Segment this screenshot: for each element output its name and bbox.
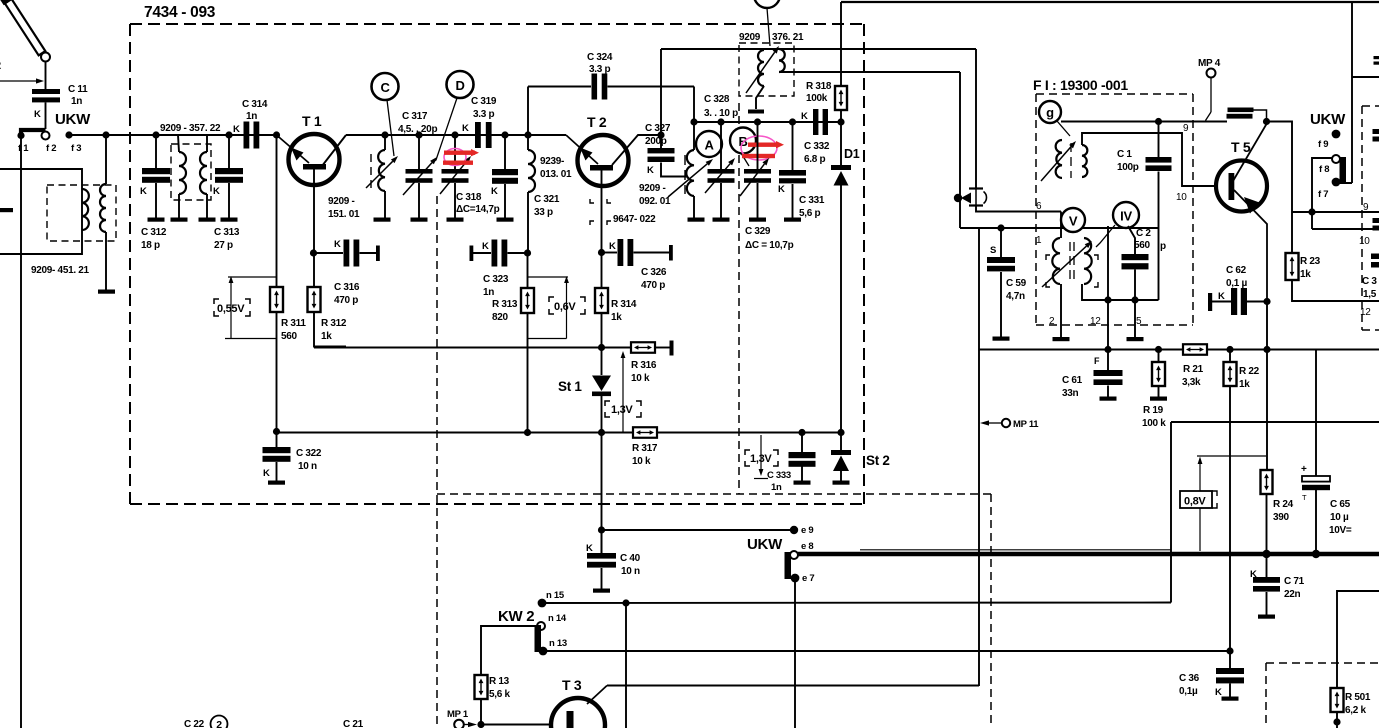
junction x1312 y212 — [1308, 208, 1315, 215]
T3 collector wire — [587, 686, 607, 705]
supply bus thick — [798, 552, 1379, 557]
resistor R13 — [475, 675, 488, 699]
junction x627 — [622, 599, 629, 606]
bypass capacitor K — [504, 135, 506, 169]
ground pin2 — [1053, 337, 1070, 341]
svg-text:T: T — [1302, 493, 1307, 502]
capacitor C322 — [276, 432, 278, 448]
svg-text:C 313: C 313 — [214, 227, 240, 238]
arrow pointing to antenna wire — [0, 80, 39, 82]
wire g to pin9 line — [1061, 121, 1227, 123]
T5 base bar — [1229, 173, 1235, 200]
junction C327 — [657, 131, 664, 138]
red annotation marks near C318 — [444, 149, 466, 166]
trafo primary winding — [758, 50, 764, 86]
trimmer capacitor C318 — [454, 135, 456, 169]
bracket 9647-022 — [590, 199, 594, 203]
pointer line from B — [741, 153, 749, 166]
svg-text:R 313: R 313 — [492, 299, 518, 310]
wire main UKW line — [69, 134, 277, 136]
terminal f9 — [1332, 130, 1341, 139]
svg-text:K: K — [801, 111, 808, 122]
svg-text:C 21: C 21 — [343, 719, 364, 728]
svg-text:33n: 33n — [1062, 388, 1079, 399]
coupling arrow — [954, 194, 962, 202]
terminal e9 — [790, 526, 798, 534]
capacitor C314 — [244, 122, 250, 149]
svg-text:3.3 p: 3.3 p — [473, 109, 494, 120]
resistor R22 — [1229, 350, 1231, 363]
svg-text:C 22: C 22 — [184, 719, 205, 728]
resistor R311 branch — [276, 135, 278, 287]
junction C331 — [789, 118, 796, 125]
svg-text:K: K — [213, 186, 220, 197]
capacitor C313 — [228, 135, 230, 168]
svg-text:f 8: f 8 — [1319, 164, 1329, 175]
svg-text:10V=: 10V= — [1329, 525, 1352, 536]
wire C324 to oscillator riser — [608, 86, 695, 88]
svg-text:R 22: R 22 — [1239, 366, 1260, 377]
svg-text:MP 4: MP 4 — [1198, 58, 1221, 69]
svg-text:R 316: R 316 — [631, 360, 657, 371]
capacitor C327 — [660, 135, 662, 148]
trafo secondary winding — [779, 49, 785, 72]
measure 0.8V arrow line — [1199, 460, 1201, 551]
svg-text:151. 01: 151. 01 — [328, 209, 360, 220]
ground C61 — [1100, 397, 1117, 401]
svg-text:ΔC=14,7p: ΔC=14,7p — [456, 204, 500, 215]
oscillator inductor 9209-092.01 — [693, 122, 695, 150]
wire pin6 into transformer — [1060, 212, 1062, 239]
svg-text:C 312: C 312 — [141, 227, 167, 238]
wire rail y350 — [979, 349, 1183, 351]
transistor T1 — [289, 134, 340, 185]
svg-text:C 328: C 328 — [704, 94, 730, 105]
svg-text:1k: 1k — [1300, 269, 1311, 280]
wire top feed line y49 — [661, 48, 976, 50]
svg-text:1n: 1n — [483, 287, 494, 298]
svg-text:f 1: f 1 — [18, 143, 29, 154]
junction C317 — [415, 131, 422, 138]
svg-text:0,8V: 0,8V — [1184, 496, 1206, 508]
svg-text:K: K — [1250, 569, 1257, 580]
svg-text:R 318: R 318 — [806, 81, 832, 92]
pointer line from D — [432, 98, 457, 163]
wire main line into T2 — [560, 134, 566, 136]
svg-text:R 311: R 311 — [281, 318, 306, 329]
svg-text:f 2: f 2 — [46, 143, 56, 154]
capacitor C36 — [1229, 651, 1231, 668]
svg-text:n 14: n 14 — [548, 613, 567, 624]
svg-text:1k: 1k — [321, 331, 332, 342]
wire long rail x979 — [978, 228, 980, 686]
svg-text:22n: 22n — [1284, 589, 1301, 600]
antenna transformer 9209-451.21 box — [0, 169, 82, 254]
svg-text:n 13: n 13 — [549, 638, 567, 649]
junction bus C65 — [1312, 550, 1320, 558]
inner dashed bottom y=494 — [437, 493, 991, 495]
svg-text:6: 6 — [1036, 201, 1042, 212]
diode St1 — [601, 348, 603, 376]
svg-text:9209- 451. 21: 9209- 451. 21 — [31, 265, 90, 276]
svg-text:St 2: St 2 — [866, 453, 890, 468]
transistor T2 — [578, 135, 629, 186]
svg-text:10 k: 10 k — [632, 456, 651, 467]
wire corner down to oscillator coil — [693, 87, 695, 123]
wire winding to T5 base jog — [1082, 133, 1217, 186]
junction osc coil — [690, 118, 697, 125]
coil 357 right — [206, 135, 208, 152]
filter box FI:19300-001 dashed border — [1036, 93, 1193, 95]
ground — [98, 290, 115, 294]
wire R501 branch — [1337, 591, 1379, 688]
svg-text:ΔC = 10,7p: ΔC = 10,7p — [745, 240, 794, 251]
svg-text:K: K — [140, 186, 147, 197]
junction tuned coil node — [381, 131, 388, 138]
wire corner to FI pin1 — [960, 227, 1159, 229]
svg-text:g: g — [1046, 105, 1054, 120]
resistor R21 horizontal — [1183, 344, 1207, 355]
svg-text:3,3k: 3,3k — [1182, 377, 1201, 388]
svg-text:F I : 19300 -001: F I : 19300 -001 — [1033, 77, 1128, 93]
T2 base lead — [601, 171, 603, 289]
junction R501 bottom — [1333, 718, 1340, 725]
wire C11 to switch f2 — [45, 103, 47, 130]
capacitor C319 — [475, 122, 481, 148]
T1 base bar — [303, 164, 326, 170]
svg-text:100 k: 100 k — [1142, 418, 1166, 429]
svg-text:e 9: e 9 — [801, 525, 813, 536]
svg-text:3. . 10 p: 3. . 10 p — [704, 108, 738, 119]
svg-text:C 40: C 40 — [620, 553, 641, 564]
wire T3 collector line y686 — [607, 685, 979, 687]
svg-text:K: K — [647, 165, 654, 176]
switch bar e8-e7 — [785, 552, 792, 579]
inner dashed partition x=739 — [738, 103, 740, 494]
measure box 1.3V St2 — [745, 450, 750, 455]
measure 0.55V ticks and arrow — [228, 276, 277, 278]
junction trimmer B — [754, 118, 761, 125]
svg-text:1n: 1n — [246, 111, 257, 122]
resistor R318 — [840, 2, 842, 86]
T1 collector wire — [322, 135, 346, 166]
svg-text:9209: 9209 — [739, 32, 761, 43]
svg-text:K: K — [586, 543, 593, 554]
svg-text:390: 390 — [1273, 512, 1290, 523]
svg-text:p: p — [1160, 241, 1166, 252]
svg-text:R 314: R 314 — [611, 299, 637, 310]
svg-text:12: 12 — [1090, 316, 1101, 327]
svg-text:C 333: C 333 — [767, 470, 791, 481]
junction T5 emitter rail — [1263, 346, 1270, 353]
svg-text:T 5: T 5 — [1231, 139, 1251, 155]
dashed border x=991 of lower-right module — [990, 494, 992, 728]
wire x1352 down to f7 — [1351, 2, 1353, 183]
junction R19 — [1155, 346, 1162, 353]
svg-text:K: K — [334, 239, 341, 250]
junction bypass cap — [501, 131, 508, 138]
variable inductor 9209-151.01 — [384, 135, 386, 150]
partial capacitor right edge lower — [1371, 254, 1379, 260]
svg-text:33 p: 33 p — [534, 207, 553, 218]
resistor R314 — [595, 288, 608, 313]
svg-text:D: D — [455, 78, 464, 93]
svg-text:C: C — [380, 80, 390, 95]
capacitor C2 — [1128, 226, 1135, 254]
junction C59 — [997, 224, 1004, 231]
measure 0.8V tick — [1197, 455, 1266, 457]
junction St1 top — [598, 344, 605, 351]
capacitor C332 — [813, 109, 818, 135]
svg-text:R 13: R 13 — [489, 676, 510, 687]
wire antenna to C11 — [45, 62, 47, 90]
wire n15 line y603 — [542, 602, 1171, 605]
terminal f3 — [65, 131, 72, 138]
svg-text:376. 21: 376. 21 — [772, 32, 804, 43]
svg-text:UKW: UKW — [55, 111, 91, 128]
wire e9 line — [602, 529, 795, 531]
trimmer capacitor A — [720, 122, 722, 169]
ground C40 — [593, 589, 610, 593]
filter transformer bottom core dashes — [1069, 242, 1071, 251]
T1 emitter with arrow — [277, 135, 310, 163]
capacitor C312 — [155, 135, 157, 168]
terminal e8 — [790, 551, 798, 559]
wire main line T1 to C317 region — [346, 134, 566, 136]
svg-text:A: A — [704, 138, 714, 153]
pointer line from IV — [1096, 225, 1115, 247]
diode D1 — [840, 122, 842, 165]
svg-text:1,3V: 1,3V — [611, 404, 633, 416]
ground R19 — [1150, 397, 1167, 401]
T1 base lead down — [313, 170, 315, 288]
wire f1 down left rail — [20, 136, 22, 728]
antenna rod — [0, 0, 47, 56]
svg-text:10: 10 — [1176, 192, 1187, 203]
svg-text:R 24: R 24 — [1273, 499, 1294, 510]
capacitor C333 — [801, 433, 803, 453]
dial pointer circle A — [696, 131, 722, 157]
measure box 0.8V — [1180, 491, 1212, 508]
junction C318 — [451, 131, 458, 138]
ground trimmer B — [749, 218, 766, 222]
svg-text:100p: 100p — [1117, 162, 1139, 173]
wire riser to C324 line — [527, 87, 529, 136]
svg-text:K: K — [263, 468, 270, 479]
svg-text:K: K — [778, 184, 785, 195]
wire rail y432 — [277, 432, 634, 434]
svg-text:1,3V: 1,3V — [750, 453, 772, 465]
wire f8 to left corner down — [1312, 158, 1332, 229]
svg-text:2: 2 — [216, 719, 222, 728]
svg-text:5,6 p: 5,6 p — [799, 208, 820, 219]
resistor R312 — [308, 287, 321, 312]
svg-text:5: 5 — [1136, 316, 1142, 327]
svg-text:e 7: e 7 — [802, 573, 814, 584]
svg-text:UKW: UKW — [1310, 111, 1346, 128]
right module dashed border — [1362, 105, 1379, 107]
terminal f2 — [42, 132, 50, 140]
pointer line from C — [387, 100, 394, 156]
svg-text:10 n: 10 n — [621, 566, 640, 577]
svg-text:D1: D1 — [844, 147, 860, 161]
T5 emitter with arrow — [1234, 190, 1267, 302]
svg-text:9: 9 — [1363, 202, 1369, 213]
T5 collector wire — [1233, 124, 1267, 181]
wire circle to trafo — [767, 8, 770, 46]
junction bus R24 — [1262, 550, 1270, 558]
ground C312 — [148, 218, 165, 222]
pointer line from g — [1057, 121, 1070, 136]
junction C62 emitter node — [1263, 298, 1270, 305]
terminal f1 — [17, 132, 24, 139]
ground C59 — [993, 337, 1010, 341]
svg-text:C 326: C 326 — [641, 267, 667, 278]
svg-text:0,1µ: 0,1µ — [1179, 686, 1198, 697]
capacitor C324 — [592, 74, 598, 100]
module box 7434-093 dashed border — [130, 23, 864, 25]
resistor R19 — [1158, 350, 1160, 363]
svg-text:27 p: 27 p — [214, 240, 233, 251]
resistor R501 — [1331, 688, 1344, 712]
terminal n13 — [539, 647, 548, 656]
svg-text:R 312: R 312 — [321, 318, 347, 329]
bandfilter 9209-357.22 dashed box — [171, 144, 211, 200]
junction C313 — [225, 131, 232, 138]
wire y72 corner down x960 — [959, 72, 961, 228]
filter transformer top arrow — [1041, 147, 1071, 181]
junction C2 bottom — [1131, 296, 1138, 303]
svg-text:C 1: C 1 — [1117, 149, 1132, 160]
red annotation marks near B — [741, 136, 777, 160]
junction R13 bottom — [477, 721, 484, 728]
svg-text:K: K — [34, 109, 41, 120]
junction C1 top — [1155, 118, 1162, 125]
svg-text:4,5. . 20p: 4,5. . 20p — [398, 124, 437, 135]
wire C324 top line — [528, 86, 591, 88]
svg-text:R 317: R 317 — [632, 443, 658, 454]
svg-text:V: V — [1069, 214, 1078, 229]
wire e7 down — [794, 578, 796, 728]
antenna terminal circle — [41, 53, 50, 62]
inner dashed partition x=437 — [436, 196, 438, 728]
ground C318 — [447, 218, 464, 222]
svg-text:9647- 022: 9647- 022 — [613, 214, 656, 225]
wire oscillator top line — [694, 121, 841, 123]
junction C324 riser — [524, 131, 531, 138]
svg-text:200p: 200p — [645, 136, 667, 147]
svg-text:560: 560 — [281, 331, 298, 342]
switch bar f8-f7 — [1340, 157, 1347, 184]
capacitor C11 — [32, 89, 60, 94]
svg-text:C 62: C 62 — [1226, 265, 1247, 276]
junction C36 — [1226, 647, 1233, 654]
svg-text:KW 2: KW 2 — [498, 608, 534, 625]
ground C331 — [784, 218, 801, 222]
svg-text:C 329: C 329 — [745, 226, 771, 237]
wire emitter down to rail — [1266, 302, 1268, 471]
wire corner to FI pin6 — [976, 206, 1061, 212]
filter transformer bottom right winding — [1084, 238, 1092, 284]
svg-text:K: K — [233, 124, 240, 135]
wire R23 bottom to right — [1292, 280, 1379, 301]
T2 collector wire — [612, 135, 661, 165]
svg-text:C 59: C 59 — [1006, 278, 1027, 289]
svg-text:C 11: C 11 — [68, 84, 88, 95]
coupling link ticks — [969, 187, 983, 189]
svg-text:R 501: R 501 — [1345, 692, 1371, 703]
svg-text:R 23: R 23 — [1300, 256, 1321, 267]
svg-text:1n: 1n — [771, 482, 782, 493]
electrolytic C65 — [1315, 350, 1317, 477]
pin circle g — [1039, 101, 1061, 123]
measure 1.3V arrow St1 — [622, 355, 624, 433]
svg-text:100k: 100k — [806, 93, 828, 104]
terminal f7 — [1332, 178, 1341, 187]
wire y212 to right module — [1292, 211, 1379, 213]
svg-text:3.3 p: 3.3 p — [589, 64, 610, 75]
svg-text:4,7n: 4,7n — [1006, 291, 1025, 302]
junction R311 bottom C322 — [273, 428, 280, 435]
svg-text:18 p: 18 p — [141, 240, 160, 251]
circle terminal above trafo — [754, 0, 780, 8]
dial pointer circle C — [372, 73, 399, 100]
svg-text:T 3: T 3 — [562, 677, 582, 693]
measure 1.3V St2 arrow — [760, 435, 762, 471]
svg-text:K: K — [1215, 687, 1222, 698]
capacitor C71 — [1266, 556, 1268, 577]
capacitor C326 — [602, 252, 618, 254]
svg-text:S: S — [990, 245, 996, 256]
capacitor C59 — [1000, 228, 1002, 257]
test point MP11 — [980, 420, 989, 425]
svg-text:UKW: UKW — [747, 536, 783, 553]
wire winding bottom to y300 — [1082, 284, 1159, 300]
svg-text:C 323: C 323 — [483, 274, 509, 285]
junction T1 input node — [273, 131, 280, 138]
svg-text:C 3: C 3 — [1362, 276, 1377, 287]
capacitor C61 — [1107, 350, 1109, 371]
wire pin2 to ground — [1060, 284, 1062, 337]
svg-text:St 1: St 1 — [558, 379, 582, 394]
resistor R23 — [1286, 253, 1299, 280]
svg-text:5,6 k: 5,6 k — [489, 689, 510, 700]
resistor R316 horizontal — [631, 342, 655, 353]
switch bar f1-f2 — [21, 130, 46, 136]
partial capacitor top right corner — [1374, 56, 1379, 59]
ground coil 151 — [374, 218, 391, 222]
svg-text:9209 -: 9209 - — [328, 196, 355, 207]
svg-text:C 321: C 321 — [534, 194, 560, 205]
wire n14 to R13 — [481, 626, 537, 675]
ground St2 — [833, 481, 850, 485]
svg-text:470 p: 470 p — [334, 295, 358, 306]
wire top feed y2 — [841, 1, 1379, 3]
coil primary 9209-451.21 — [82, 189, 89, 230]
wire St1 node down to e9 line — [601, 433, 603, 554]
stub bar left edge — [0, 208, 13, 212]
wire branch y422 — [1171, 421, 1379, 423]
terminal n14 — [537, 622, 545, 630]
capacitor C40 — [601, 530, 603, 553]
ground C36 — [1222, 697, 1239, 701]
svg-text:IV: IV — [1120, 209, 1132, 224]
svg-text:K: K — [482, 241, 489, 252]
wire rail y348 — [314, 347, 631, 349]
ground C313 — [221, 218, 238, 222]
ground trafo — [748, 110, 764, 114]
junction T5 collector node — [1263, 118, 1270, 125]
